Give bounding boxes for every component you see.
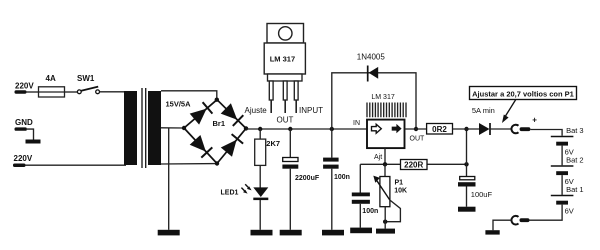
svg-text:2200uF: 2200uF — [295, 175, 320, 182]
ground (100n input) — [322, 230, 344, 236]
svg-text:15V/5A: 15V/5A — [166, 100, 192, 109]
wire 2200uF to ground — [289, 169, 291, 230]
wire LM317 adjust pin — [384, 148, 386, 164]
P1 wiper arrow — [376, 180, 390, 200]
wire plug to ground — [493, 220, 512, 230]
op-amp U1 LM317 box — [367, 120, 405, 149]
ground (2200uF) — [280, 230, 302, 236]
svg-text:Bat 1: Bat 1 — [566, 185, 584, 194]
svg-text:6V: 6V — [565, 207, 574, 216]
TO-220 pin 2 (OUT) — [283, 81, 287, 100]
ground (100uF) — [458, 207, 476, 212]
junction P1 wiper — [383, 220, 387, 224]
svg-text:GND: GND — [15, 118, 33, 127]
wire secondary to bridge left corner — [161, 127, 184, 129]
wire adjust line — [360, 163, 466, 165]
label Br1 — [209, 118, 227, 128]
junction output sense — [464, 162, 468, 166]
svg-text:Br1: Br1 — [213, 119, 226, 128]
svg-text:Ajuste: Ajuste — [245, 106, 268, 115]
wire 100n2 to ground — [359, 204, 361, 228]
wire P1 wiper to bottom — [385, 200, 400, 222]
callout box Ajustar a 20,7 voltios con P1 — [470, 87, 577, 100]
wire 100n2 branch — [359, 164, 361, 192]
svg-text:OUT: OUT — [277, 116, 294, 125]
wire plug to battery stack — [530, 130, 562, 136]
svg-text:220V: 220V — [14, 154, 33, 163]
junction 1N4005 to OUT — [414, 127, 418, 131]
wire P1 to ground — [384, 207, 386, 229]
transformer core — [141, 88, 143, 168]
junction adjust pin — [383, 162, 387, 166]
wire bat3 to bat2 — [561, 146, 563, 166]
svg-text:Bat 2: Bat 2 — [566, 155, 584, 164]
svg-text:LED1: LED1 — [221, 190, 239, 197]
junction bridge right — [244, 126, 248, 130]
wire fuse to switch — [65, 91, 78, 93]
junction bridge bottom — [215, 161, 219, 165]
wire bat2 to bat1 — [561, 175, 563, 195]
ground (P1) — [376, 229, 395, 234]
svg-text:1N4005: 1N4005 — [357, 52, 386, 61]
TO-220 pin 1 (Ajuste) — [269, 81, 273, 100]
wire battery stack to bottom plug — [529, 205, 562, 221]
LM317 output arrow (solid) — [392, 124, 402, 133]
svg-text:100uF: 100uF — [471, 190, 493, 199]
bridge diode D3 (left to bottom) — [190, 135, 206, 152]
LM317 TO-220 package body — [264, 43, 305, 74]
resistor 0R2 — [427, 124, 453, 135]
wire output to adjust network — [466, 129, 468, 164]
callout arrow — [506, 100, 516, 117]
svg-text:+: + — [532, 116, 537, 125]
LED1 arrows — [245, 184, 249, 188]
wire 220V bottom to transformer primary — [26, 164, 127, 166]
resistor 220R — [401, 160, 428, 170]
svg-text:INPUT: INPUT — [299, 106, 323, 115]
svg-text:Bat 3: Bat 3 — [566, 126, 584, 135]
svg-text:0R2: 0R2 — [432, 125, 447, 134]
ground (LED) — [251, 230, 273, 236]
resistor 2K7 — [255, 139, 266, 165]
ground (earth bar) — [26, 140, 41, 144]
wire secondary top to bridge — [161, 91, 217, 100]
svg-text:P1: P1 — [395, 179, 404, 186]
svg-text:4A: 4A — [46, 74, 56, 83]
wire 2K7 to LED — [259, 165, 261, 187]
svg-text:220V: 220V — [15, 82, 34, 91]
wire 100uF to ground — [466, 187, 468, 207]
bridge diode D4 (bottom to right) — [221, 140, 237, 157]
TO-220 pin 3 (INPUT) — [294, 81, 298, 100]
junction bridge left — [182, 126, 186, 130]
svg-text:SW1: SW1 — [77, 74, 95, 83]
junction bridge top — [215, 98, 219, 102]
bridge diode D1 (left to top) — [190, 109, 207, 125]
svg-text:OUT: OUT — [410, 136, 426, 143]
wire to 2K7 — [259, 129, 261, 139]
junction main line 0R2 — [464, 127, 468, 131]
LED LED1 — [253, 187, 268, 197]
wire 1N4005 loop — [332, 73, 416, 129]
capacitor 100uF — [466, 164, 468, 176]
ground (return) — [485, 230, 499, 234]
svg-text:2K7: 2K7 — [266, 139, 280, 148]
TO-220 mounting hole — [279, 27, 292, 40]
svg-text:LM 317: LM 317 — [371, 94, 394, 101]
heatsink fins — [367, 103, 406, 118]
wire terminal to fuse — [26, 91, 39, 93]
bridge rectifier Br1 — [184, 100, 217, 128]
connector plug + output — [511, 125, 518, 134]
LM317 TO-220 package tab — [267, 24, 304, 44]
wire 100n to ground — [331, 169, 333, 230]
wire bridge left corner to ground — [168, 128, 170, 230]
junction 100n / 1N4005 — [330, 127, 334, 131]
svg-text:IN: IN — [353, 120, 360, 127]
svg-text:220R: 220R — [404, 161, 423, 170]
transformer TR1 primary winding — [124, 91, 137, 165]
junction 2200uF — [288, 127, 292, 131]
svg-text:100n: 100n — [334, 174, 350, 181]
capacitor 100n (adjust) — [352, 193, 370, 197]
capacitor 100n (input) — [323, 158, 339, 162]
ground (100n adjust) — [350, 228, 372, 234]
svg-text:LM 317: LM 317 — [270, 55, 295, 64]
wire bridge output to LM317 IN — [246, 128, 367, 130]
wire switch to transformer primary — [100, 91, 125, 93]
wire 0R2 to diode — [453, 128, 480, 130]
svg-text:100n: 100n — [362, 208, 378, 215]
junction 2K7 branch — [258, 127, 262, 131]
capacitor 2200uF (electrolytic) — [283, 158, 298, 162]
wire LED to ground — [259, 200, 261, 230]
svg-text:Ajustar a 20,7 voltios con P1: Ajustar a 20,7 voltios con P1 — [472, 89, 574, 98]
transformer TR1 secondary winding 15V/5A — [148, 91, 161, 165]
wire secondary bottom to bridge bottom corner — [161, 163, 217, 165]
LM317 input arrow (hollow) — [372, 124, 382, 133]
svg-text:Ajt: Ajt — [374, 154, 382, 161]
potentiometer P1 10K — [384, 164, 386, 176]
bridge diode D2 (top to right) — [221, 103, 238, 119]
wire to 100n — [331, 129, 333, 158]
svg-text:5A min: 5A min — [472, 106, 495, 115]
terminal 220V top — [15, 90, 27, 93]
terminal GND — [15, 127, 27, 130]
svg-text:10K: 10K — [394, 187, 407, 194]
connector plug - return — [520, 218, 530, 222]
wire diode to plug — [490, 128, 512, 130]
wire LM317 out — [405, 128, 427, 130]
terminal 220V bottom — [13, 164, 26, 168]
ground (bridge negative) — [158, 230, 180, 236]
wire GND to earth bar — [27, 129, 34, 139]
wire to 2200uF — [289, 129, 291, 158]
